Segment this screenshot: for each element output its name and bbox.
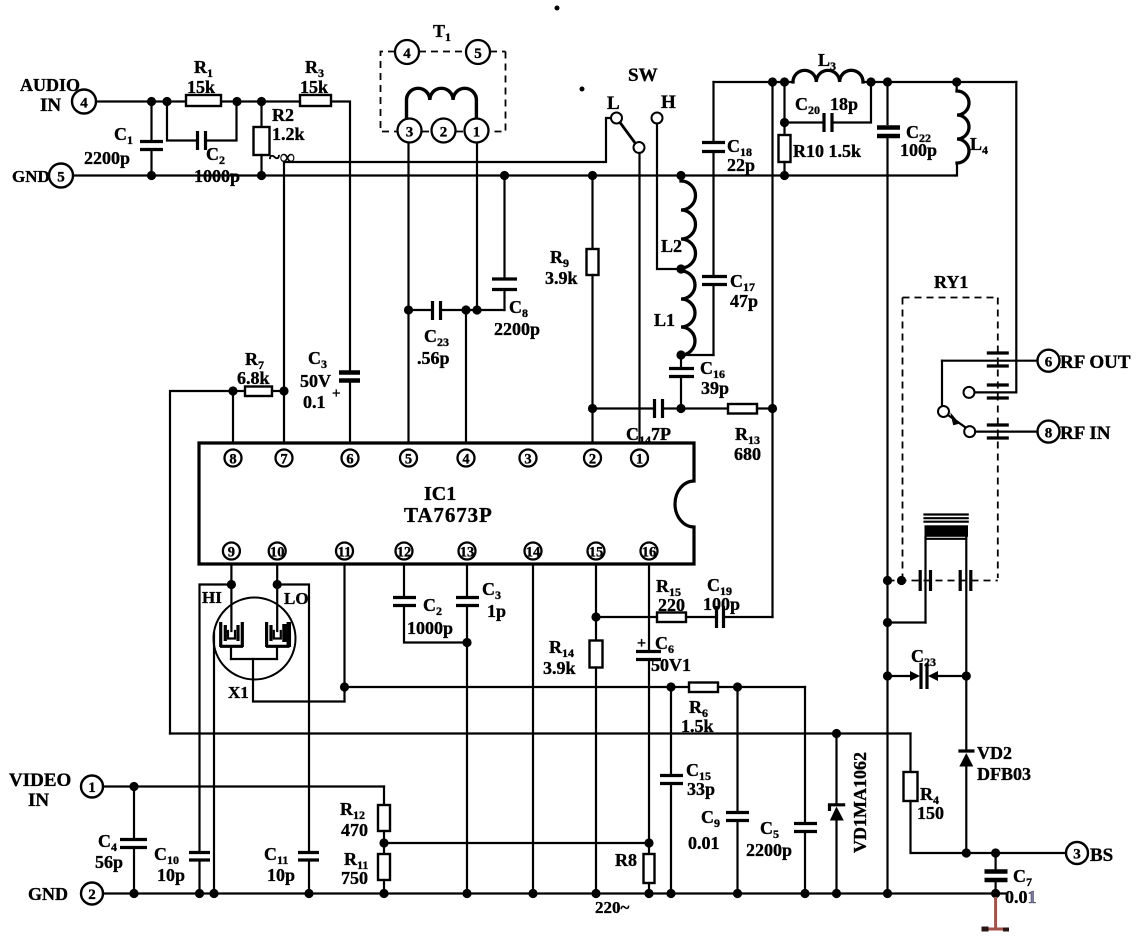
terminal 3 BS (1066, 842, 1113, 866)
capacitor C2 1000p (167, 102, 240, 187)
terminal 8 RF IN (1038, 421, 1111, 444)
node gnd C15 (666, 889, 675, 898)
wire R7 left long wire down (170, 391, 233, 734)
wire RF OUT corner down to pivot (941, 361, 943, 406)
svg-text:7P: 7P (651, 424, 671, 444)
wire bottom gnd line (103, 892, 1007, 894)
capacitor C20 18p (785, 82, 872, 132)
node dashed-line x887 (883, 576, 892, 585)
svg-text:14: 14 (526, 545, 541, 561)
wire T1 pin1 down (476, 143, 478, 310)
svg-text:DFB03: DFB03 (977, 764, 1031, 784)
node gnd C4 (129, 889, 138, 898)
stray print dot (580, 87, 585, 92)
pin 3 (520, 450, 537, 468)
node C2-C3 junction (462, 638, 471, 647)
switch SW (607, 65, 676, 153)
svg-text:7: 7 (280, 452, 287, 468)
svg-text:1p: 1p (487, 601, 506, 621)
svg-text:8: 8 (229, 452, 236, 468)
svg-text:4: 4 (462, 452, 469, 468)
svg-text:RY1: RY1 (934, 272, 968, 292)
svg-text:5: 5 (57, 170, 65, 186)
svg-text:2200p: 2200p (494, 319, 540, 339)
svg-text:VD1MA1062: VD1MA1062 (850, 752, 870, 853)
wire pin4 lead (465, 310, 467, 443)
svg-text:2200p: 2200p (746, 840, 792, 860)
svg-text:SW: SW (628, 65, 658, 86)
node R7 left / pin8 (228, 386, 237, 395)
resistor R12 470 (340, 787, 390, 855)
node gnd case (209, 889, 218, 898)
wire top line down to relay (975, 82, 1017, 392)
node C7 gnd (991, 889, 1000, 898)
capacitor C1 2200p (84, 102, 163, 176)
relay contact terminal bars (RF IN) (987, 425, 1009, 438)
node top line x871 (866, 77, 875, 86)
svg-text:100p: 100p (900, 140, 937, 160)
svg-text:~∞: ~∞ (269, 145, 295, 169)
inductor L4 (955, 82, 988, 176)
crystal X1 (202, 585, 345, 703)
pin 2 (584, 450, 601, 468)
node R12-R11 (379, 838, 388, 847)
resistor R2 1.2k (254, 102, 305, 176)
node C20 left / R10 top (780, 118, 789, 127)
node C16 bottom (676, 404, 685, 413)
node C4 top (129, 782, 138, 791)
node gnd C11 (304, 889, 313, 898)
svg-text:.56p: .56p (417, 348, 450, 368)
node pin15 (591, 612, 600, 621)
resistor R11 750 (341, 849, 390, 894)
node top line x887 (883, 77, 892, 86)
wire RF OUT line (942, 360, 1038, 362)
pin 7 (276, 450, 293, 468)
capacitor C19 100p (703, 575, 773, 628)
svg-text:1: 1 (636, 452, 643, 468)
svg-text:6: 6 (346, 452, 353, 468)
svg-text:IC1: IC1 (424, 483, 456, 505)
node R9-C14 (588, 404, 597, 413)
diode VD1 MA1062 (830, 734, 871, 894)
pin 4 (458, 450, 475, 468)
relay lead terminal bars on dashed line (920, 570, 971, 591)
node gnd pin14 (528, 889, 537, 898)
node VD2 bottom (962, 848, 971, 857)
svg-text:470: 470 (341, 820, 368, 840)
svg-text:L1: L1 (654, 310, 675, 330)
terminal 1 VIDEO IN (9, 770, 103, 811)
wire pin7 vertical (283, 162, 285, 443)
pin 8 (225, 450, 242, 468)
node top line x772 (768, 77, 777, 86)
node top line x784 (780, 77, 789, 86)
wire pin8 lead (232, 391, 234, 443)
wire pin16 lead (648, 564, 650, 650)
wire SW common to IC pin1 (638, 153, 640, 443)
relay RY1 dashed box (888, 272, 998, 581)
pin 12 (396, 543, 413, 561)
capacitor C11 10p (264, 844, 319, 894)
capacitor C17 47p (681, 271, 758, 355)
wire RF IN line (975, 431, 1037, 433)
relay coil (925, 515, 969, 677)
resistor R15 220 (596, 576, 715, 622)
pin 10 (269, 543, 286, 561)
svg-text:0.01: 0.01 (1005, 887, 1037, 907)
stray print dot top (555, 6, 560, 11)
svg-text:10: 10 (270, 545, 285, 561)
pin 9 (223, 543, 240, 561)
capacitor C3 0.1/50V electrolytic (300, 348, 360, 443)
wire vertical x772 top line to C19 (771, 82, 773, 617)
pin 11 (336, 543, 353, 561)
node C2 right (232, 97, 241, 106)
svg-text:47p: 47p (730, 291, 758, 311)
capacitor C15 33p (660, 687, 715, 894)
svg-text:750: 750 (341, 868, 368, 888)
node pin4 top (461, 305, 470, 314)
svg-text:0.01: 0.01 (688, 833, 720, 853)
resistor R7 6.8k (233, 349, 284, 396)
node gnd R8 (644, 889, 653, 898)
terminal 2 GND (28, 883, 103, 905)
svg-text:16: 16 (642, 545, 657, 561)
wire video line (103, 785, 384, 787)
right resonator (276, 585, 278, 632)
svg-text:100p: 100p (703, 594, 740, 614)
svg-text:5: 5 (405, 452, 412, 468)
svg-text:39p: 39p (701, 378, 729, 398)
node C8 top (500, 171, 509, 180)
resistor R8 (615, 850, 655, 894)
wire supply line y687 (345, 686, 690, 688)
node gnd C22 line (883, 889, 892, 898)
terminal 5 GND (12, 164, 73, 188)
svg-text:4: 4 (80, 96, 88, 112)
capacitor C7 0.01 (985, 853, 1037, 907)
node gnd C5 (800, 889, 809, 898)
wire main gnd/return line y175 (73, 174, 955, 176)
svg-text:3.9k: 3.9k (543, 658, 576, 678)
svg-text:R2: R2 (272, 105, 294, 125)
wire between R1 and R3 (221, 100, 300, 102)
pin 16 (641, 543, 658, 561)
resistor R1 15k (186, 57, 221, 106)
svg-text:8: 8 (1045, 426, 1053, 442)
capacitor C10 10p (154, 844, 210, 894)
svg-text:H: H (661, 92, 676, 113)
pin 1 (631, 450, 648, 468)
svg-text:VIDEO: VIDEO (9, 770, 71, 791)
svg-text:6.8k: 6.8k (237, 368, 270, 388)
pin 14 (525, 543, 542, 561)
svg-text:+: + (637, 635, 646, 652)
wire HI jog (200, 585, 232, 851)
op-amp/IC U1 IC1 TA7673P body (199, 443, 694, 564)
svg-text:15: 15 (589, 545, 604, 561)
wire pin9 lead (230, 564, 232, 585)
svg-text:GND: GND (28, 884, 68, 904)
svg-text:X1: X1 (228, 683, 249, 702)
node audio-C1 (147, 97, 156, 106)
pin 13 (459, 543, 476, 561)
svg-text:3: 3 (406, 125, 414, 141)
node audio-C2 left (162, 97, 171, 106)
svg-text:+: + (332, 386, 341, 402)
svg-text:L: L (607, 93, 620, 114)
svg-text:HI: HI (202, 588, 222, 607)
node L2-L1 junction (676, 264, 685, 273)
svg-text:RF OUT: RF OUT (1060, 352, 1131, 373)
node R2 top (257, 97, 266, 106)
capacitor C18 22p (702, 82, 755, 275)
wire crystal case ground (213, 633, 215, 894)
node L1 bottom (676, 350, 685, 359)
pin 15 (588, 543, 605, 561)
tap (231, 658, 277, 660)
resistor R10 1.5k (779, 123, 862, 176)
node R10 bottom (780, 171, 789, 180)
node C1 gnd (147, 171, 156, 180)
relay moving arm with arrow (948, 412, 966, 428)
capacitor C4 56p (95, 787, 147, 894)
node HI (227, 580, 236, 589)
capacitor C2 1000p (pin12) (393, 564, 467, 643)
svg-text:1.2k: 1.2k (272, 124, 305, 144)
svg-text:2: 2 (440, 125, 448, 141)
node gnd VD1 (832, 889, 841, 898)
node C7 top (991, 848, 1000, 857)
wire RF top line y82 (714, 81, 794, 83)
terminal 6 RF OUT (1038, 350, 1131, 373)
node gnd C10 (195, 889, 204, 898)
svg-text:L2: L2 (661, 236, 682, 256)
svg-text:1000p: 1000p (407, 618, 453, 638)
ground (red) (985, 897, 1008, 929)
inductor L1 (654, 271, 695, 355)
wire pin14 to gnd (532, 564, 534, 894)
node T1pin1 bottom (472, 305, 481, 314)
node top line x956 (952, 77, 961, 86)
svg-text:RF IN: RF IN (1060, 423, 1111, 444)
wire R4 branch (909, 734, 911, 773)
node gnd R11 (379, 889, 388, 898)
resistor R3 15k (300, 57, 331, 106)
capacitor C14 7p (593, 399, 682, 418)
svg-text:1: 1 (473, 125, 481, 141)
node dashed-line x901 (897, 576, 906, 585)
wire T1 pin3 to IC pin5 (407, 143, 409, 443)
svg-text:2200p: 2200p (84, 148, 130, 168)
node R2 gnd (257, 171, 266, 180)
svg-text:56p: 56p (95, 852, 123, 872)
node gnd pin13 (462, 889, 471, 898)
capacitor C16 39p (669, 355, 729, 409)
svg-text:IN: IN (28, 790, 49, 811)
svg-text:VD2: VD2 (977, 743, 1012, 763)
wire jog line y162 to SW L (284, 118, 611, 162)
svg-text:680: 680 (734, 444, 761, 464)
svg-text:5: 5 (474, 46, 482, 62)
wire SW H to L2 bottom (657, 124, 681, 270)
relay contact terminal bars (middle) (987, 385, 1009, 398)
node T1pin3 line y310 (404, 305, 413, 314)
svg-text:TA7673P: TA7673P (404, 503, 493, 527)
svg-text:1: 1 (88, 780, 96, 796)
svg-text:13: 13 (460, 545, 475, 561)
capacitor C3 1p (pin13) (456, 564, 506, 894)
svg-text:150: 150 (917, 803, 944, 823)
capacitor C23 56p (409, 301, 505, 368)
svg-text:3.9k: 3.9k (545, 268, 578, 288)
node gnd R14 (591, 889, 600, 898)
resistor R14 3.9k (543, 637, 603, 894)
svg-text:3: 3 (524, 452, 531, 468)
svg-text:4: 4 (403, 46, 411, 62)
node gnd C9 (733, 889, 742, 898)
capacitor C9 0.01 (688, 687, 749, 894)
node R9 top (588, 171, 597, 180)
svg-text:2: 2 (589, 452, 596, 468)
svg-text:10p: 10p (157, 865, 185, 885)
capacitor C8 2200p (492, 176, 540, 340)
wire BS line (966, 852, 1066, 854)
capacitor C6 electrolytic 50V1 (636, 633, 691, 854)
svg-text:18p: 18p (830, 94, 858, 114)
wire LO jog (277, 585, 309, 852)
node LO (273, 580, 282, 589)
node VD1 top (832, 729, 841, 738)
node x887 y622 (883, 618, 892, 627)
svg-text:BS: BS (1090, 845, 1113, 866)
terminal 4 AUDIO IN (20, 75, 96, 116)
pin 5 (400, 450, 417, 468)
wire pin15 lead (595, 564, 597, 641)
wire pin10 lead (276, 564, 278, 585)
capacitor C5 2200p (746, 687, 817, 894)
left resonator (230, 585, 232, 632)
resistor R6 1.5k (681, 683, 805, 737)
svg-text:AUDIO: AUDIO (20, 75, 80, 95)
node x887 y676 (883, 671, 892, 680)
relay middle contact C (964, 387, 975, 398)
svg-text:10p: 10p (267, 865, 295, 885)
svg-text:11: 11 (338, 545, 352, 561)
transformer T1 (381, 21, 506, 143)
svg-text:GND: GND (12, 167, 50, 186)
svg-text:22p: 22p (727, 155, 755, 175)
svg-text:LO: LO (284, 589, 309, 608)
node L2 top (676, 171, 685, 180)
resistor R13 680 (681, 404, 773, 464)
svg-text:220~: 220~ (595, 898, 630, 917)
resistor R9 3.9k (545, 176, 599, 444)
relay contact terminal bars (RF OUT) (987, 353, 1009, 366)
node C6/R8/R12 line (644, 838, 653, 847)
inductor L2 (661, 176, 696, 269)
wire audio line (96, 100, 186, 102)
node VD2 top (962, 671, 971, 680)
svg-text:IN: IN (40, 95, 61, 116)
node pin11 / supply line (340, 682, 349, 691)
wire relay coil left lead to x887 (888, 621, 926, 623)
svg-text:2: 2 (88, 887, 96, 903)
svg-text:0.1: 0.1 (303, 392, 326, 412)
svg-text:3: 3 (1073, 847, 1081, 863)
svg-text:12: 12 (397, 545, 412, 561)
wire R3 to pin6 drop (331, 102, 350, 373)
node C15 top (666, 682, 675, 691)
relay pivot contact A (938, 406, 949, 417)
relay lower contact B (964, 426, 975, 437)
wire R12-R11 junction to C6 (384, 842, 649, 844)
svg-text:50V: 50V (300, 371, 331, 391)
svg-text:R10 1.5k: R10 1.5k (793, 141, 861, 161)
pin 6 (342, 450, 359, 468)
resistor R4 150 (904, 772, 967, 853)
wire long line y733 (170, 732, 911, 734)
node R6 right / C9 (733, 682, 742, 691)
svg-text:33p: 33p (687, 779, 715, 799)
svg-text:9: 9 (228, 545, 235, 561)
capacitor C23 (relay) with arrows (888, 646, 967, 689)
capacitor C14 value label (626, 424, 671, 447)
svg-text:R8: R8 (615, 850, 637, 870)
capacitor C22 100p (877, 82, 937, 894)
diode VD2 DFB03 (958, 676, 1031, 853)
wire pin11 lead (343, 564, 345, 702)
svg-text:6: 6 (1045, 355, 1053, 371)
node R7 right / pin7 line (279, 386, 288, 395)
inductor L3 (793, 50, 863, 82)
node R13 right (768, 404, 777, 413)
